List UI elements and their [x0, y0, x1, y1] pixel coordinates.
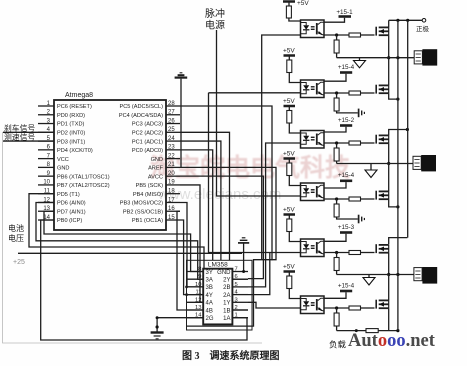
- U1 pin 7 stub and number: [38, 158, 54, 160]
- node junction bus B stage3 drain: [406, 128, 409, 131]
- svg-text:PC6 (RESET): PC6 (RESET): [57, 104, 92, 110]
- svg-text:22: 22: [168, 153, 175, 159]
- svg-text:23: 23: [168, 145, 175, 151]
- svg-text:电池: 电池: [8, 223, 24, 233]
- U2 pin 10 stub: [187, 286, 204, 288]
- svg-text:PD0 (RXD): PD0 (RXD): [57, 113, 85, 119]
- U1 pin 10 stub and number: [38, 184, 54, 186]
- U1 pin 6 stub and number: [38, 149, 54, 151]
- svg-text:AVCC: AVCC: [148, 174, 163, 180]
- U1 pin 14 stub and number: [38, 219, 54, 221]
- U1 pin 24 stub and number: [166, 140, 180, 142]
- U1 pin 25 stub and number: [166, 131, 180, 133]
- U1 pin 22 stub and number: [166, 158, 180, 160]
- svg-text:PC4 (ADC4/SDA): PC4 (ADC4/SDA): [119, 113, 163, 119]
- U1 pin 11 stub and number: [38, 193, 54, 195]
- wire U1 pin11 wrap-around to U2 pin10: [29, 194, 204, 269]
- wire Q2 source to bus: [389, 93, 398, 99]
- svg-text:PD3 (INT1): PD3 (INT1): [57, 139, 85, 145]
- node junction R6p bottom: [336, 326, 338, 331]
- wire U1 pin23 down to module: [180, 150, 213, 260]
- svg-text:PC0 (ADC0): PC0 (ADC0): [132, 148, 163, 154]
- resistor R2p (gate pulldown): [336, 93, 338, 98]
- node junction bus A bottom: [396, 329, 399, 332]
- ground symbol below U2 pin14: [156, 318, 158, 333]
- wire U1 pin28 to vertical bus: [180, 106, 272, 260]
- svg-text:Autooo.net: Autooo.net: [348, 331, 436, 351]
- wire load line 3: [337, 274, 414, 276]
- resistor R1p (gate pulldown): [336, 35, 338, 40]
- U2 pin 5 stub: [232, 286, 248, 288]
- svg-text:+15-2: +15-2: [338, 117, 355, 124]
- U1 pin 9 stub and number: [38, 175, 54, 177]
- svg-text:20: 20: [168, 171, 175, 177]
- svg-text:www.elecians.com: www.elecians.com: [157, 186, 281, 203]
- IC U2 body: [203, 269, 232, 325]
- U2 pin 8 stub: [187, 271, 204, 273]
- bottom return line with resistor: [337, 330, 366, 332]
- wire Q6 drain to load line 3: [388, 275, 390, 301]
- svg-text:24: 24: [168, 136, 175, 142]
- resistor R13 (current sense): [366, 329, 378, 333]
- svg-text:3Y: 3Y: [206, 270, 213, 276]
- svg-text:LM358: LM358: [208, 261, 228, 268]
- wire R1p to load line 1: [336, 53, 338, 58]
- svg-text:PB2 (SS/OC1B): PB2 (SS/OC1B): [123, 209, 163, 215]
- svg-text:PB6 (XTAL1/TOSC1): PB6 (XTAL1/TOSC1): [57, 174, 110, 180]
- wire U2 pin2 stub: [232, 309, 248, 311]
- connector + load M1: [414, 51, 422, 64]
- svg-text:+5V: +5V: [283, 151, 295, 158]
- resistor R6g (gate series): [349, 306, 361, 310]
- node junction load line 3: [387, 273, 390, 276]
- wire pulse-power net down to opto4 input: [217, 30, 301, 196]
- U1 pin 1 stub and number: [38, 105, 54, 107]
- svg-text:2A: 2A: [223, 293, 230, 299]
- node junction load line 2: [387, 162, 390, 165]
- svg-text:4Y: 4Y: [206, 293, 213, 299]
- svg-text:19: 19: [168, 180, 175, 186]
- U1 pin 2 stub and number: [38, 114, 54, 116]
- optocoupler U5: [301, 131, 325, 149]
- module outline around U2: [187, 260, 253, 330]
- svg-text:+15-3: +15-3: [338, 224, 355, 231]
- U2 pin 7 stub: [232, 271, 248, 273]
- wire +V top rail: [389, 19, 423, 21]
- node gate junction stage 6: [335, 306, 338, 309]
- svg-text:电源: 电源: [205, 19, 225, 32]
- wire R3p to load line 2: [336, 161, 338, 164]
- U2 pin 14 stub: [187, 317, 204, 319]
- wire U1 pin17 short drop: [180, 202, 203, 286]
- ground (sideways) stage 4: [358, 215, 360, 224]
- svg-text:PD5 (T1): PD5 (T1): [57, 192, 80, 198]
- U2 pin 1 stub: [232, 317, 248, 319]
- connector + load M2: [413, 156, 421, 169]
- svg-text:VCC: VCC: [57, 157, 69, 163]
- wire to opto2 anode: [289, 73, 300, 83]
- wire U1 pin25 down to module: [180, 132, 230, 260]
- svg-text:2G: 2G: [206, 316, 214, 322]
- terminal (positive): [422, 19, 426, 23]
- wire to opto3 anode: [289, 123, 300, 133]
- IC U1 ATmega8 body: [54, 100, 166, 230]
- ground (sideways) stage 2: [358, 109, 360, 118]
- node gate junction stage 5: [335, 251, 338, 254]
- U1 pin 26 stub and number: [166, 123, 180, 125]
- svg-text:4A: 4A: [206, 301, 213, 307]
- resistor R5p (gate pulldown): [336, 253, 338, 258]
- svg-text:2B: 2B: [223, 285, 230, 291]
- wire Q2 drain to load line 1: [388, 58, 390, 86]
- wire opto1 input vertical: [262, 35, 301, 260]
- U1 pin 13 stub and number: [38, 210, 54, 212]
- connector + load M3: [414, 268, 422, 281]
- wire bus A vertical: [397, 20, 399, 330]
- svg-text:10: 10: [195, 282, 201, 288]
- wire U2 pin6 stub: [232, 278, 248, 280]
- node gate junction stage 2: [335, 91, 338, 94]
- svg-text:8: 8: [198, 267, 201, 273]
- transistor Q2 MOSFET: [376, 85, 389, 94]
- wire opto4 output to gate: [324, 198, 349, 200]
- svg-text:1B: 1B: [223, 308, 230, 314]
- svg-text:AREF: AREF: [148, 166, 164, 172]
- resistor R5a (LED series): [287, 219, 292, 232]
- junction on U2 pin10: [185, 286, 188, 289]
- svg-text:12: 12: [195, 297, 201, 303]
- resistor R6p (gate pulldown): [336, 308, 338, 313]
- transistor Q3 MOSFET: [376, 135, 389, 144]
- resistor R6a (LED series): [287, 276, 292, 289]
- svg-text:负载: 负载: [329, 340, 347, 350]
- junction on U2 pin11: [185, 293, 188, 296]
- svg-text:正极: 正极: [416, 24, 430, 33]
- resistor R2g (gate series): [349, 91, 361, 95]
- wire Q5 source to load line 3: [388, 253, 390, 275]
- resistor R5g (gate series): [349, 251, 361, 255]
- U2 pin 2 stub: [232, 309, 248, 311]
- ground triangle stage pair 1: [359, 58, 361, 61]
- svg-text:+15-1: +15-1: [336, 9, 353, 16]
- svg-text:16: 16: [168, 206, 175, 212]
- svg-text:测速信号: 测速信号: [4, 132, 35, 142]
- wire Q4 drain to load line 2: [388, 164, 390, 192]
- svg-text:18: 18: [168, 189, 175, 195]
- wire Q3 source to load line 2: [388, 143, 390, 163]
- wire U1 pin20 AVCC down to U2 pin6: [180, 176, 263, 278]
- wire U1 pin14 long loop to U2 pin1: [41, 220, 247, 340]
- svg-text:PC3 (ADC3): PC3 (ADC3): [132, 122, 163, 128]
- resistor R4a (LED series): [287, 163, 292, 176]
- svg-text:PB4 (MISO): PB4 (MISO): [133, 192, 163, 198]
- U1 pin 8 stub and number: [38, 166, 54, 168]
- svg-text:4B: 4B: [206, 308, 213, 314]
- wire U2 pin5 up to opto3 input: [248, 143, 301, 287]
- node gate junction stage 1: [335, 33, 338, 36]
- wire U2 pin4 up joining opto5 input: [248, 253, 270, 295]
- U1 pin 17 stub and number: [166, 201, 180, 203]
- U2 pin 4 stub: [232, 294, 248, 296]
- svg-text:PC2 (ADC2): PC2 (ADC2): [132, 131, 163, 137]
- resistor R3a (LED series): [287, 111, 292, 124]
- svg-text:9: 9: [198, 274, 201, 280]
- svg-text:图 3 调速系统原理图: 图 3 调速系统原理图: [182, 349, 280, 362]
- node junction bus stage2 source: [396, 98, 399, 101]
- svg-text:+15-4: +15-4: [338, 64, 355, 71]
- optocoupler U6: [301, 183, 325, 201]
- U1 pin 3 stub and number: [38, 123, 54, 125]
- svg-text:1A: 1A: [223, 316, 230, 322]
- svg-text:13: 13: [195, 305, 201, 311]
- svg-text:17: 17: [168, 197, 175, 203]
- optocoupler U3: [301, 20, 325, 38]
- node gate junction stage 3: [335, 141, 338, 144]
- svg-text:GND: GND: [217, 270, 231, 276]
- wire U1 pin15 down to U2 pin11: [180, 220, 203, 295]
- svg-text:+5V: +5V: [283, 264, 295, 271]
- resistor R3p (gate pulldown): [336, 143, 338, 148]
- resistor R2a (LED series): [287, 60, 292, 73]
- U1 pin 23 stub and number: [166, 149, 180, 151]
- svg-text:+15-4: +15-4: [338, 282, 355, 289]
- wire to opto4 anode: [289, 176, 300, 186]
- U1 pin 18 stub and number: [166, 193, 180, 195]
- svg-text:PD2 (INT0): PD2 (INT0): [57, 131, 85, 137]
- svg-text:+5V: +5V: [283, 207, 295, 214]
- svg-text:+5V: +5V: [297, 0, 309, 7]
- U1 pin 16 stub and number: [166, 210, 180, 212]
- svg-text:PB0 (ICP): PB0 (ICP): [57, 218, 82, 224]
- wire opto3 output to gate: [324, 142, 349, 144]
- wire R5p to load line 3: [336, 271, 338, 275]
- optocoupler U7: [301, 239, 325, 257]
- svg-text:PD4 (XCK/T0): PD4 (XCK/T0): [57, 148, 93, 154]
- wire U1 pin19 down to U2 pin12: [180, 185, 203, 302]
- svg-text:PD6 (AIN0): PD6 (AIN0): [57, 201, 86, 207]
- U2 pin 6 stub: [232, 278, 248, 280]
- wire U2 pin3 down to opto6 input: [248, 302, 301, 308]
- U2 pin 12 stub: [187, 301, 204, 303]
- svg-text:刹车信号: 刹车信号: [4, 123, 35, 133]
- wire U1 pin16 down to U2 pin13: [177, 211, 203, 310]
- wire Q3 drain to bus B: [389, 130, 408, 136]
- wire opto5 output to gate: [324, 252, 349, 254]
- U2 pin 11 stub: [187, 294, 204, 296]
- wire R2p to signal ground: [337, 111, 358, 113]
- svg-text:+15-4: +15-4: [338, 172, 355, 179]
- transistor Q5 MOSFET: [376, 244, 389, 253]
- svg-text:电压: 电压: [8, 233, 24, 243]
- svg-text:Atmega8: Atmega8: [65, 92, 93, 99]
- svg-text:PB7 (XTAL2/TOSC2): PB7 (XTAL2/TOSC2): [57, 183, 110, 189]
- node bus B tap: [406, 19, 409, 22]
- wire bus B jog to Q5 drain: [389, 238, 408, 245]
- svg-text:7: 7: [235, 267, 238, 273]
- ground symbol above U2 (pin7 GND): [243, 244, 245, 272]
- resistor R4p (gate pulldown): [336, 199, 338, 204]
- svg-text:15: 15: [168, 215, 175, 221]
- node bus A tap: [396, 19, 399, 22]
- U2 pin 3 stub: [232, 301, 248, 303]
- svg-text:PC5 (ADC5/SCL): PC5 (ADC5/SCL): [119, 104, 163, 110]
- U1 pin 28 stub and number: [166, 105, 180, 107]
- wire U1 pin21 AREF staircase to under-module: [180, 167, 276, 326]
- wire to opto1 anode: [289, 18, 301, 21]
- U1 pin 19 stub and number: [166, 184, 180, 186]
- wire to opto6 anode: [289, 289, 300, 299]
- U1 pin 4 stub and number: [38, 131, 54, 133]
- svg-text:3: 3: [235, 297, 238, 303]
- svg-text:GND: GND: [151, 157, 163, 163]
- svg-text:PD1 (TXD): PD1 (TXD): [57, 122, 84, 128]
- U1 pin 27 stub and number: [166, 114, 180, 116]
- resistor R3g (gate series): [349, 141, 361, 145]
- optocoupler U4: [301, 80, 325, 98]
- svg-text:脉冲: 脉冲: [205, 7, 225, 20]
- ground symbol top-middle (MCU GND pin22): [180, 72, 183, 74]
- wire Q1 source to load line 1: [388, 35, 390, 58]
- U1 pin 15 stub and number: [166, 219, 180, 221]
- wire opto2 output to gate: [324, 92, 349, 94]
- svg-text:26: 26: [168, 118, 175, 124]
- svg-text:10: 10: [43, 180, 50, 186]
- node junction bus A load line 1: [396, 56, 399, 59]
- transistor Q1 MOSFET: [376, 27, 389, 36]
- node junction load line 1: [387, 56, 390, 59]
- wire to opto5 anode: [289, 232, 300, 242]
- wire Q4 source to bus: [389, 199, 398, 207]
- wire U1 pin24 down to module: [180, 141, 221, 260]
- svg-text:PC1 (ADC1): PC1 (ADC1): [132, 139, 163, 145]
- wire U1 pin12 wrap-around to U2 pin9: [36, 202, 203, 279]
- U2 pin 13 stub: [187, 309, 204, 311]
- ground triangle stage pair 2: [370, 164, 372, 171]
- U2 pin 9 stub: [187, 278, 204, 280]
- power +5V rail stage 1: [283, 0, 295, 3]
- svg-text:5: 5: [235, 282, 238, 288]
- U1 pin 12 stub and number: [38, 201, 54, 203]
- node speed-signal: wire to U1 pin 5: [3, 140, 54, 142]
- wire opto5 input from MCU side: [209, 93, 301, 253]
- svg-text:21: 21: [168, 162, 175, 168]
- svg-text:1Y: 1Y: [223, 301, 230, 307]
- wire Q1 drain to +rail: [388, 20, 390, 27]
- ground triangle stage pair 3: [368, 275, 370, 278]
- transistor Q6 MOSFET: [376, 300, 389, 309]
- optocoupler U8: [301, 296, 325, 314]
- wire opto6 output to gate: [324, 307, 349, 309]
- node junction bus stage4 source: [396, 205, 399, 208]
- wire R4p to signal ground: [337, 217, 358, 219]
- svg-text:PB5 (SCK): PB5 (SCK): [136, 183, 163, 189]
- node gate junction stage 4: [335, 197, 338, 200]
- resistor R1a (LED series): [286, 6, 291, 18]
- wire U1 pin13 wrap-around to U2 pin8: [44, 211, 203, 271]
- svg-text:2Y: 2Y: [223, 278, 230, 284]
- U1 pin 21 stub and number: [166, 166, 180, 168]
- resistor R1g (gate series): [349, 33, 361, 37]
- transistor Q4 MOSFET: [376, 191, 389, 200]
- svg-text:3A: 3A: [206, 278, 213, 284]
- watermark Autooo.net: [348, 331, 436, 351]
- svg-text:25: 25: [168, 127, 175, 133]
- wire Q6 source to bottom return: [388, 308, 390, 330]
- svg-text:+5V: +5V: [283, 98, 295, 105]
- faint page edge line left: [3, 132, 263, 343]
- wire load line 2: [337, 163, 413, 165]
- svg-text:PD7 (AIN1): PD7 (AIN1): [57, 209, 86, 215]
- svg-text:PB3 (MOSI/OC2): PB3 (MOSI/OC2): [120, 201, 163, 207]
- battery voltage net wire: [18, 252, 242, 254]
- wire U2 pin14 to ground: [157, 317, 203, 319]
- wire bus B vertical: [407, 20, 409, 237]
- svg-text:28: 28: [168, 101, 175, 107]
- svg-text:+25: +25: [13, 259, 25, 266]
- U1 pin 5 stub and number: [38, 140, 54, 142]
- wire opto2 input: [209, 92, 301, 94]
- node brake-signal: wire to U1 pin 4: [3, 131, 54, 133]
- svg-text:11: 11: [195, 290, 201, 296]
- wire opto1 output to gate: [324, 34, 349, 36]
- wire load line 1: [337, 57, 415, 59]
- svg-text:+5V: +5V: [283, 48, 295, 55]
- resistor R4g (gate series): [349, 197, 361, 201]
- svg-text:1: 1: [235, 313, 238, 319]
- svg-text:PB1 (OC1A): PB1 (OC1A): [132, 218, 163, 224]
- decorative watermark (not labelled further): [150, 153, 350, 182]
- svg-text:GND: GND: [57, 166, 69, 172]
- node junction bus A load line 3: [396, 273, 399, 276]
- svg-text:3B: 3B: [206, 285, 213, 291]
- U1 pin 20 stub and number: [166, 175, 180, 177]
- svg-text:27: 27: [168, 110, 175, 116]
